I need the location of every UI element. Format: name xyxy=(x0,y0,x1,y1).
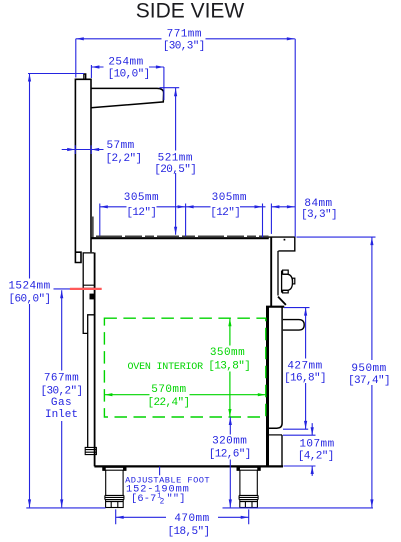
svg-text:[6-7: [6-7 xyxy=(131,493,157,505)
gas pipe upper column xyxy=(83,253,94,334)
gas inlet square xyxy=(90,294,95,300)
dim 521mm line xyxy=(160,88,180,235)
door front face xyxy=(269,307,282,429)
svg-text:[16,8″]: [16,8″] xyxy=(284,373,326,385)
svg-text:[60,0″]: [60,0″] xyxy=(8,293,50,305)
svg-text:570mm: 570mm xyxy=(151,384,186,396)
green dim 350mm line xyxy=(229,318,231,417)
svg-text:[22,4″]: [22,4″] xyxy=(147,397,189,409)
grate surface line xyxy=(96,235,269,237)
green arrowheads xyxy=(104,318,265,417)
svg-text:[12″]: [12″] xyxy=(210,207,240,219)
valve nub xyxy=(293,278,295,284)
svg-text:57mm: 57mm xyxy=(107,140,135,152)
svg-text:350mm: 350mm xyxy=(210,347,245,359)
control panel back line xyxy=(270,237,272,307)
dim 950mm line xyxy=(297,237,376,507)
svg-text:[4,2″]: [4,2″] xyxy=(298,450,334,462)
svg-text:[20,5″]: [20,5″] xyxy=(154,164,196,176)
body left wall xyxy=(94,253,96,467)
svg-text:1524mm: 1524mm xyxy=(8,281,50,293)
svg-text:767mm: 767mm xyxy=(44,372,79,384)
adjustable foot leader xyxy=(159,467,161,477)
kick panel front xyxy=(281,435,283,467)
svg-text:305mm: 305mm xyxy=(212,192,247,204)
dim 470mm line xyxy=(116,516,249,518)
valve bottom tab xyxy=(283,290,289,293)
label adjustable foot xyxy=(125,475,210,506)
body right wall xyxy=(266,307,269,466)
svg-text:[30,2″]: [30,2″] xyxy=(40,385,82,397)
svg-text:OVEN INTERIOR: OVEN INTERIOR xyxy=(127,362,203,373)
svg-text:Inlet: Inlet xyxy=(45,409,78,421)
dim 57mm line xyxy=(62,145,104,154)
blue dimension lines xyxy=(26,39,375,525)
right foot xyxy=(237,467,260,507)
svg-text:427mm: 427mm xyxy=(287,361,322,373)
gas pipe lower column xyxy=(88,315,94,448)
valve knob base xyxy=(281,271,283,293)
kick panel top xyxy=(268,434,283,436)
left foot xyxy=(103,467,126,507)
svg-text:[37,4″]: [37,4″] xyxy=(348,375,390,387)
flue shelf xyxy=(91,88,164,107)
svg-text:Gas: Gas xyxy=(51,397,72,409)
diagonal brace xyxy=(278,297,286,305)
svg-text:771mm: 771mm xyxy=(167,28,202,40)
control panel front line xyxy=(277,251,279,296)
back panel top tab xyxy=(84,74,86,79)
oven interior dashed box xyxy=(104,318,265,417)
svg-text:950mm: 950mm xyxy=(351,363,386,375)
top right block xyxy=(269,237,295,251)
svg-text:470mm: 470mm xyxy=(174,513,209,525)
svg-text:[12,6″]: [12,6″] xyxy=(209,449,251,461)
svg-text:2: 2 xyxy=(160,499,165,507)
svg-text:[3,3″]: [3,3″] xyxy=(301,209,337,221)
svg-text:″″]: ″″] xyxy=(167,493,186,505)
gas pipe fitting lines xyxy=(83,285,94,288)
burner box left edge xyxy=(92,217,94,239)
svg-text:SIDE VIEW: SIDE VIEW xyxy=(136,0,245,23)
svg-text:305mm: 305mm xyxy=(124,192,159,204)
valve knob D-shape xyxy=(283,274,293,290)
dim 427mm line xyxy=(283,308,310,430)
svg-text:254mm: 254mm xyxy=(108,57,143,69)
svg-text:[10,0″]: [10,0″] xyxy=(108,68,150,80)
floor line xyxy=(26,507,373,509)
door top edge xyxy=(266,306,284,308)
green dim 570mm line xyxy=(104,394,265,396)
dim 305mm lines xyxy=(100,206,295,208)
green texts xyxy=(127,347,250,409)
dim 107mm lines xyxy=(283,423,316,476)
green oven interior group xyxy=(104,318,265,417)
dim 84mm line xyxy=(270,204,272,234)
svg-text:107mm: 107mm xyxy=(299,438,334,450)
svg-text:[2,2″]: [2,2″] xyxy=(106,153,142,165)
back panel xyxy=(75,79,91,262)
dim 767mm line xyxy=(61,290,63,507)
svg-text:[12″]: [12″] xyxy=(126,207,156,219)
dim 320mm line xyxy=(229,417,231,507)
valve top tab xyxy=(283,270,289,274)
dim 1524mm line xyxy=(28,74,84,508)
svg-text:[13,8″]: [13,8″] xyxy=(208,361,250,373)
blue arrowheads xyxy=(28,37,374,519)
svg-text:521mm: 521mm xyxy=(158,152,193,164)
svg-text:[30,3″]: [30,3″] xyxy=(163,41,205,53)
red gas inlet marker line xyxy=(70,288,102,290)
block screw dot xyxy=(284,239,286,241)
gas union fitting xyxy=(85,447,96,454)
svg-text:[18,5″]: [18,5″] xyxy=(167,526,209,538)
dim 254mm line xyxy=(91,65,163,100)
dim 771mm line xyxy=(76,38,295,40)
svg-text:320mm: 320mm xyxy=(212,436,247,448)
door handle xyxy=(283,320,304,331)
body bottom line xyxy=(94,465,283,467)
body top line xyxy=(91,237,269,239)
